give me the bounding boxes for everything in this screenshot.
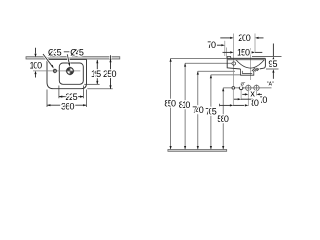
svg-text:Øˇ: Øˇ [241, 82, 246, 87]
svg-text:x: x [250, 89, 255, 99]
svg-text:70: 70 [260, 95, 268, 105]
svg-text:250: 250 [103, 69, 117, 79]
svg-text:Ø45: Ø45 [70, 47, 84, 57]
svg-text:"A": "A" [267, 81, 274, 87]
svg-text:810: 810 [179, 100, 191, 110]
svg-text:580: 580 [217, 114, 229, 124]
svg-text:80: 80 [251, 98, 259, 108]
svg-text:95: 95 [94, 69, 101, 79]
svg-text:200: 200 [238, 33, 251, 43]
svg-text:Ø35: Ø35 [48, 47, 62, 57]
svg-text:70: 70 [207, 40, 216, 50]
svg-text:95: 95 [268, 59, 277, 69]
svg-text:740: 740 [192, 105, 204, 115]
svg-text:705: 705 [205, 106, 217, 116]
svg-text:850: 850 [164, 98, 176, 108]
svg-text:150: 150 [237, 48, 250, 58]
svg-text:360: 360 [61, 101, 75, 111]
svg-text:100: 100 [30, 61, 43, 71]
